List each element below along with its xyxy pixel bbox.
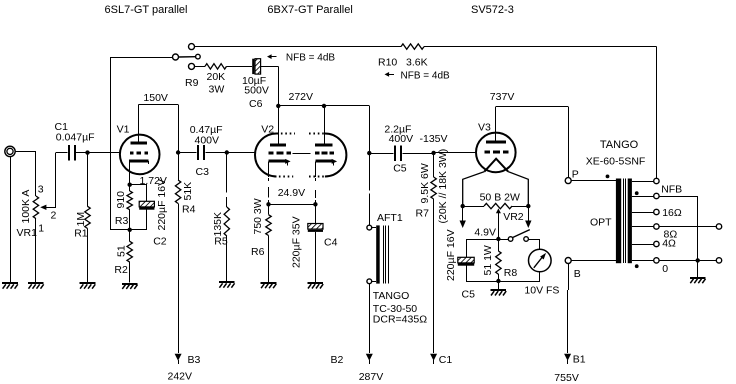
V2 grids (dashes) <box>268 152 334 155</box>
V1 cathode <box>129 161 149 185</box>
OPT 16 ohm tap <box>632 209 659 214</box>
node: C1/R1/V1-grid junction <box>85 150 89 154</box>
switch SW1 throw B (to R9) <box>189 63 195 69</box>
svg-text:XE-60-5SNF: XE-60-5SNF <box>586 156 646 168</box>
capacitor C5 2.2uF 400V <box>369 145 433 160</box>
V2 right plate <box>315 106 333 145</box>
OPT NFB winding bottom tap to ground rail <box>632 193 698 277</box>
switch SW1 throw A (direct NFB) <box>189 44 195 50</box>
V1 grid (dashes) <box>130 152 148 155</box>
capacitor C2 220uF 16V <box>130 185 155 230</box>
svg-text:51: 51 <box>116 245 128 257</box>
wire: P terminal to primary <box>571 180 616 182</box>
svg-text:VR2: VR2 <box>503 211 524 223</box>
node: V1 cathode junction <box>128 183 132 187</box>
wire: VR1 bottom to ground <box>35 219 37 283</box>
resistor R6 750 3W <box>266 204 271 282</box>
node: C3 / R5 / V2 grid junction <box>225 150 229 154</box>
switch SW1 lever tip terminal <box>196 54 201 59</box>
speaker terminal (0/common) <box>716 258 721 263</box>
svg-text:4Ω: 4Ω <box>662 238 676 250</box>
svg-text:R7: R7 <box>416 207 430 219</box>
V1 plate <box>131 105 147 144</box>
svg-text:C5: C5 <box>393 162 407 174</box>
NFB arrow near R10 <box>388 74 394 76</box>
svg-text:750 3W: 750 3W <box>252 198 264 234</box>
svg-text:B3: B3 <box>188 354 201 366</box>
node: V2 left cathode junction <box>266 202 270 206</box>
node: filament right junction <box>526 204 530 208</box>
wire: V3 plate to OPT P terminal <box>496 107 569 178</box>
svg-text:R1: R1 <box>74 228 88 240</box>
svg-text:242V: 242V <box>168 370 193 382</box>
ground (R5) <box>219 282 235 288</box>
B2 supply arrow <box>366 354 373 361</box>
svg-text:287V: 287V <box>359 371 384 383</box>
node: VR2 wiper / 4.9V junction <box>496 237 500 241</box>
svg-text:-135V: -135V <box>420 133 448 145</box>
svg-text:V2: V2 <box>261 124 274 136</box>
phase dot NFB winding <box>635 191 639 195</box>
resistor R10 3.6K (NFB) <box>401 44 424 49</box>
svg-text:B: B <box>574 268 581 280</box>
svg-text:1M: 1M <box>75 212 87 227</box>
svg-text:6SL7-GT parallel: 6SL7-GT parallel <box>105 4 188 16</box>
svg-text:C1: C1 <box>439 354 453 366</box>
svg-text:10V FS: 10V FS <box>524 285 559 297</box>
svg-text:100K A: 100K A <box>20 190 32 224</box>
wire: jack sleeve to ground <box>10 157 12 283</box>
B3 supply arrow <box>175 354 182 361</box>
svg-text:SV572-3: SV572-3 <box>471 4 514 16</box>
resistor R3 910 <box>127 185 132 230</box>
svg-text:OPT: OPT <box>590 217 612 229</box>
svg-text:9.5K 6W: 9.5K 6W <box>419 163 431 203</box>
speaker terminal (8 ohm) <box>716 224 721 229</box>
svg-text:737V: 737V <box>490 91 515 103</box>
node: C6/left plate junction <box>276 104 280 108</box>
svg-text:V3: V3 <box>478 121 491 133</box>
node: right plate junction <box>322 104 326 108</box>
svg-text:272V: 272V <box>289 91 314 103</box>
meter switch <box>498 230 539 242</box>
svg-text:R4: R4 <box>182 203 196 215</box>
ground (input jack) <box>2 283 18 289</box>
svg-text:400V: 400V <box>389 133 414 145</box>
phase dot secondary <box>635 264 639 268</box>
node: R8 bottom junction <box>496 279 500 283</box>
resistor R7 9.5K 6W <box>431 153 436 353</box>
svg-text:B2: B2 <box>331 354 344 366</box>
tube V2 6BX7 envelope <box>255 134 346 177</box>
node: filament left junction <box>461 204 465 208</box>
svg-text:24.9V: 24.9V <box>278 187 305 199</box>
svg-text:V1: V1 <box>117 124 130 136</box>
OPT 8 ohm tap <box>632 224 716 229</box>
ground (R6) <box>261 283 277 288</box>
V2 left cathode <box>269 159 291 204</box>
node: V2 right cathode junction <box>313 202 317 206</box>
OPT NFB winding top tap <box>632 178 659 183</box>
svg-text:51 1W: 51 1W <box>482 245 494 275</box>
svg-text:51K: 51K <box>182 182 194 201</box>
svg-text:R2: R2 <box>114 264 128 276</box>
svg-text:NFB = 4dB: NFB = 4dB <box>401 71 451 82</box>
resistor R9 20K 3W <box>195 64 253 69</box>
meter M1 10V FS <box>498 239 551 282</box>
wire: V1 plate to C3/R4 node <box>139 105 179 153</box>
svg-text:1: 1 <box>38 223 44 235</box>
choke AFT1 TANGO TC-30-50 <box>367 153 389 353</box>
OPT 4 ohm tap <box>632 241 659 246</box>
svg-text:AFT1: AFT1 <box>377 212 403 224</box>
svg-text:C3: C3 <box>196 166 210 178</box>
svg-text:B1: B1 <box>573 354 586 366</box>
svg-text:R8: R8 <box>504 267 518 279</box>
svg-text:500V: 500V <box>244 85 269 97</box>
switch SW1 lever <box>179 56 196 58</box>
wire: cathode junction link <box>269 204 316 206</box>
svg-text:400V: 400V <box>195 135 220 147</box>
wire: junction to V1 grid <box>88 152 121 154</box>
svg-text:220µF 16V: 220µF 16V <box>156 179 168 231</box>
svg-text:220µF 16V: 220µF 16V <box>445 229 457 281</box>
svg-text:3.6K: 3.6K <box>406 56 428 68</box>
svg-text:0.047µF: 0.047µF <box>56 132 95 144</box>
svg-text:220µF 35V: 220µF 35V <box>291 216 303 268</box>
V3 plate <box>486 107 506 143</box>
svg-text:755V: 755V <box>554 372 579 384</box>
NFB arrow near C6 <box>271 56 277 58</box>
svg-text:16Ω: 16Ω <box>662 207 682 219</box>
transformer OPT TANGO XE-60-5SNF windings/core <box>616 179 632 264</box>
ground (R1) <box>80 283 96 289</box>
ground (VR1) <box>28 283 44 289</box>
svg-text:R10: R10 <box>378 56 397 68</box>
C1 supply arrow <box>430 354 437 361</box>
V2 left plate <box>270 106 286 145</box>
capacitor C3 0.47uF 400V <box>178 145 227 160</box>
capacitor C6 10uF 500V <box>252 59 278 106</box>
svg-text:P: P <box>572 169 579 181</box>
svg-text:20K: 20K <box>207 71 226 83</box>
filament supply arrow left <box>460 206 466 228</box>
wire: junction to V3 grid <box>434 152 477 154</box>
wire: jack tip to VR1 top <box>15 151 36 196</box>
ground (R2) <box>122 284 138 289</box>
node: V1 plate / C3 / R4 junction <box>176 150 180 154</box>
node: R3 bottom / NFB junction <box>128 228 132 232</box>
svg-text:VR1: VR1 <box>17 227 38 239</box>
resistor R1 1M <box>85 153 90 283</box>
svg-text:0: 0 <box>662 263 668 275</box>
svg-text:TANGO: TANGO <box>600 139 639 151</box>
filament supply arrow right <box>525 206 531 228</box>
svg-text:C2: C2 <box>153 236 167 248</box>
input jack J1 <box>5 146 15 156</box>
capacitor C5 220uF 16V (filament bypass) <box>458 239 499 282</box>
svg-text:50 B 2W: 50 B 2W <box>480 191 520 203</box>
svg-text:C6: C6 <box>249 98 263 110</box>
switch SW1 common terminal <box>173 54 179 60</box>
wire: 272V plate rail <box>278 106 369 154</box>
capacitor C4 220uF 35V <box>308 204 323 282</box>
wire: top NFB rail from switch to output transformer <box>195 47 657 179</box>
svg-text:R5: R5 <box>214 235 228 247</box>
tube V1 6SL7 envelope <box>120 135 160 175</box>
svg-text:2: 2 <box>51 210 57 222</box>
svg-text:NFB = 4dB: NFB = 4dB <box>286 53 336 64</box>
potentiometer VR1 100K A <box>33 153 56 219</box>
svg-text:NFB: NFB <box>661 183 682 195</box>
B1 supply arrow <box>564 354 571 361</box>
svg-text:135K: 135K <box>212 212 224 237</box>
wire: B terminal to B1 supply <box>568 264 570 291</box>
svg-text:6BX7-GT Parallel: 6BX7-GT Parallel <box>267 4 352 16</box>
wire: B terminal to primary <box>571 260 616 262</box>
resistor R4 51K <box>175 153 180 354</box>
node: C5 / R7 / V3 grid junction <box>431 151 435 155</box>
OPT 0 tap <box>632 258 716 263</box>
wire: NFB line from R3 node to selector switch <box>110 57 173 230</box>
capacitor C1 0.047uF <box>56 145 88 160</box>
svg-text:910: 910 <box>115 191 127 209</box>
svg-text:TANGO: TANGO <box>373 290 410 302</box>
ground (C4) <box>308 283 324 289</box>
svg-text:C5: C5 <box>462 289 476 301</box>
svg-text:4.9V: 4.9V <box>474 227 496 239</box>
V2 right cathode <box>315 159 337 204</box>
resistor R8 51 1W <box>496 239 501 281</box>
node: 0 tap / ground rail junction <box>696 258 700 262</box>
node: V2 output / AFT1 / C5 junction <box>367 151 371 155</box>
tube V3 SV572-3 envelope <box>476 133 516 173</box>
ground (OPT secondary) <box>690 278 706 283</box>
potentiometer VR2 50 B 2W <box>463 203 529 239</box>
svg-text:3W: 3W <box>209 84 225 96</box>
svg-text:C4: C4 <box>324 237 338 249</box>
svg-text:150V: 150V <box>143 92 168 104</box>
phase dot primary <box>606 175 610 179</box>
svg-text:R9: R9 <box>185 77 199 89</box>
OPT B terminal <box>565 258 571 264</box>
V3 filament <box>463 159 529 206</box>
svg-text:R3: R3 <box>115 215 129 227</box>
svg-text:(20K // 18K 3W): (20K // 18K 3W) <box>437 149 449 224</box>
resistor R2 51 <box>127 230 132 283</box>
V3 grid (dashes) <box>484 151 508 154</box>
ground (R8) <box>491 281 507 296</box>
svg-text:R6: R6 <box>251 246 265 258</box>
wire: junction to V2 grid <box>227 152 256 154</box>
resistor R5 135K (V2 grid leak) <box>224 153 229 282</box>
OPT P terminal <box>565 178 571 184</box>
svg-text:3: 3 <box>38 184 44 196</box>
svg-text:DCR=435Ω: DCR=435Ω <box>373 313 427 325</box>
